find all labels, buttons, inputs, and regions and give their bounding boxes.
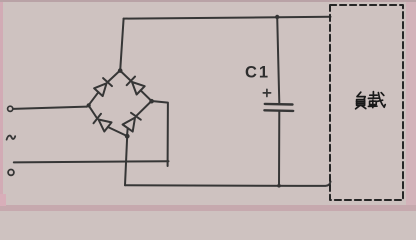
node : bridge left junction dot — [87, 103, 91, 107]
svg-text:C1: C1 — [245, 64, 270, 82]
diode D1 upper-left diode (L to T) — [89, 71, 121, 106]
wire : bridge bottom node drop — [125, 136, 127, 185]
wire : joint into left node — [87, 105, 89, 106]
node : bridge top junction dot — [118, 68, 123, 73]
node : bridge right junction dot — [149, 99, 154, 104]
wire : top DC rail from bridge to load box — [124, 17, 331, 19]
wire : capacitor branch top — [277, 17, 279, 103]
wire : bridge top node riser — [120, 19, 123, 71]
diode D3 lower-left diode (B to L) — [89, 105, 128, 136]
capacitor C1 bottom plate — [264, 109, 293, 112]
capacitor C1 top plate — [265, 103, 293, 106]
label 负载 (load) right char 载 — [368, 92, 385, 108]
AC source tilde symbol — [7, 136, 16, 140]
diode D2 upper-right diode (R to T) — [120, 71, 152, 102]
node : bridge bottom junction dot — [125, 134, 130, 139]
wire : capacitor branch bottom — [278, 111, 280, 186]
node : capacitor / bottom rail junction dot — [277, 184, 281, 188]
load box dashed rectangle — [330, 5, 403, 200]
wire : bridge right node over and down — [152, 101, 168, 166]
label 负载 (load) left char 负 — [356, 92, 366, 109]
wire : upper AC input to bridge left node — [13, 107, 87, 109]
diode D4 lower-right diode (B to R) — [123, 101, 152, 136]
wire : bottom DC rail to load box — [125, 182, 331, 186]
terminal : lower AC input circle — [8, 170, 14, 176]
node : capacitor / top rail junction dot — [275, 15, 279, 19]
terminal : upper AC input circle — [8, 106, 13, 111]
wire : lower AC input long horizontal to bridge right branch — [14, 161, 169, 162]
capacitor C1 polarity plus sign — [263, 89, 270, 96]
